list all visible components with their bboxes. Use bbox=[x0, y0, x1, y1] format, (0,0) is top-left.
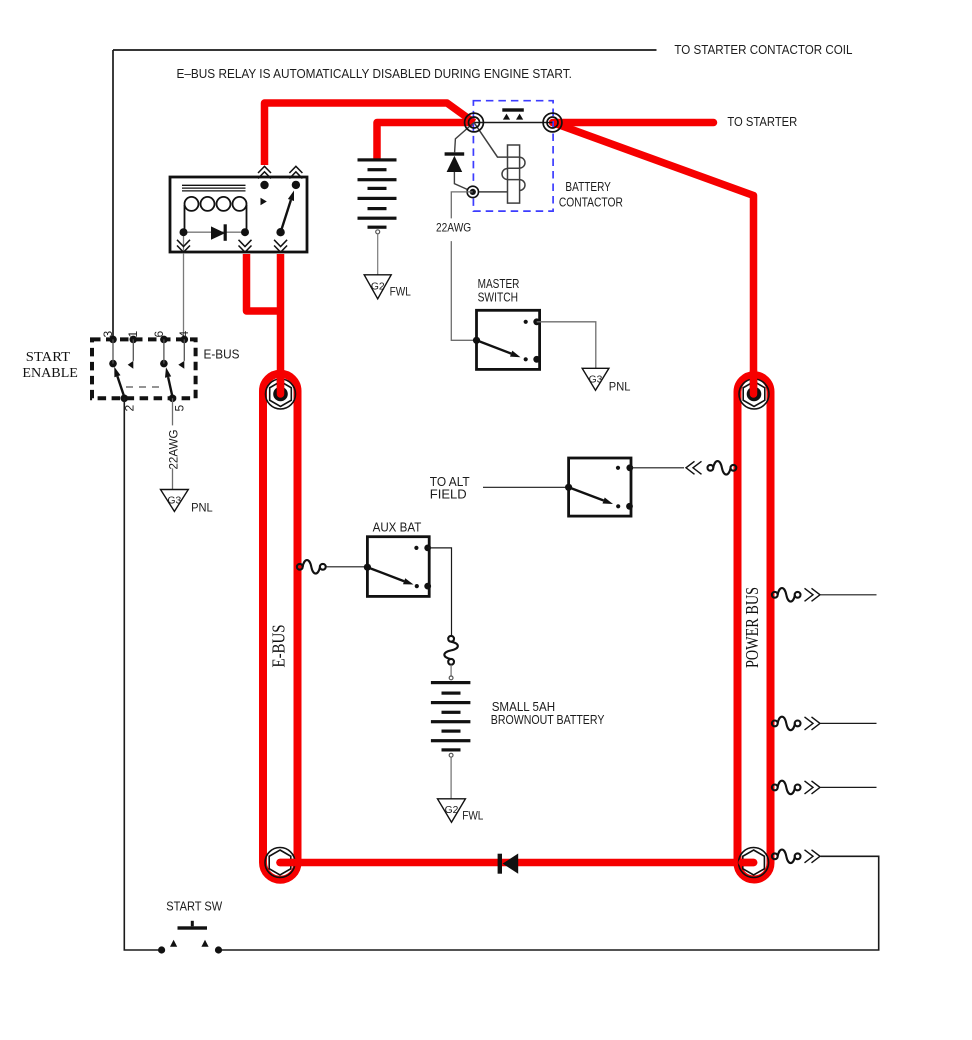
svg-text:G3: G3 bbox=[168, 496, 182, 507]
wire: fuse to aux bat switch bbox=[326, 566, 368, 568]
wire: alt field switch to fuse bbox=[630, 467, 684, 469]
switch S1 contacts bbox=[524, 318, 540, 362]
svg-text:E-BUS: E-BUS bbox=[204, 348, 240, 362]
svg-text:G3: G3 bbox=[589, 374, 603, 385]
battery B1: main battery plates bbox=[358, 158, 397, 229]
wire: thick red bottom tie from e-bus bolt to power bus bolt bbox=[280, 859, 754, 867]
switch S2 pin dots bbox=[109, 336, 188, 403]
svg-text:E-BUS: E-BUS bbox=[269, 625, 289, 668]
svg-text:E–BUS RELAY IS AUTOMATICALLY D: E–BUS RELAY IS AUTOMATICALLY DISABLED DU… bbox=[177, 67, 572, 81]
connector chevrons (left-pointing) on alt field feed bbox=[686, 461, 702, 474]
relay K1 fixed contact triangle bbox=[261, 198, 267, 205]
wire: feeder 3 bbox=[821, 786, 877, 788]
bus: E-BUS red slot outline bbox=[263, 374, 298, 880]
bolt: POWER BUS bottom stud bbox=[739, 848, 769, 878]
svg-text:TO STARTER: TO STARTER bbox=[727, 115, 797, 129]
wire: top signal line to starter contactor coil bbox=[113, 49, 657, 51]
fuse link F2 on power bus (feeder 2) bbox=[772, 717, 801, 731]
switch S3 arm with arrowhead bbox=[569, 487, 604, 500]
switch S3 contacts bbox=[616, 464, 633, 509]
switch S1: master switch box bbox=[477, 310, 540, 369]
bus: POWER BUS red slot outline bbox=[738, 375, 771, 879]
contactor small coil terminal bbox=[467, 186, 478, 197]
fuse link F3 on power bus (feeder 3) bbox=[772, 781, 801, 795]
battery B2: brownout battery plates bbox=[431, 681, 471, 752]
switch S2 pin numbers (rotated) bbox=[101, 331, 191, 412]
wire: red stub into power bus top bolt bbox=[750, 371, 758, 394]
bolt: POWER BUS top stud bbox=[739, 379, 769, 409]
wire: gray from relay coil terminal down to start-enable pin 4 bbox=[183, 232, 185, 339]
relay K1 chevron pins (bottom) bbox=[177, 240, 287, 252]
diode D2: contactor spike diode bbox=[445, 152, 465, 172]
relay K1 coil loops bbox=[185, 197, 247, 232]
ground G2 FWL (firewall) for battery B1 bbox=[364, 275, 411, 299]
ground G2 FWL for brownout battery bbox=[438, 799, 484, 823]
wire: battery B2 to ground G2 bbox=[450, 757, 452, 799]
fuse link F1 on power bus (feeder 1) bbox=[772, 588, 801, 602]
svg-text:22AWG: 22AWG bbox=[436, 220, 471, 234]
wire: thick red from relay contact up and over to battery contactor terminal A bbox=[265, 103, 475, 165]
svg-text:G2: G2 bbox=[371, 282, 385, 293]
wire: thick red diagonal from contactor terminal B down to power bus bbox=[553, 123, 754, 394]
bolt: E-BUS top stud bbox=[266, 379, 296, 409]
relay K1 chevron pins (top) bbox=[258, 166, 302, 178]
wire: contactor coil feed and winding bbox=[474, 123, 525, 204]
contactor contact triangles bbox=[503, 114, 510, 120]
wire: label line to alt field switch bbox=[483, 486, 569, 488]
switch S2: start enable dashed box bbox=[92, 339, 196, 398]
wire: start enable pin 2 down and over to start switch bbox=[124, 398, 161, 950]
switch S2 gang link dashed bbox=[126, 386, 164, 388]
relay K1: e-bus relay box bbox=[170, 177, 307, 252]
wire: 22AWG wire from contactor coil terminal bbox=[451, 192, 476, 340]
connector chevrons feeder 1 bbox=[805, 588, 821, 601]
battery B1 bottom terminal circle bbox=[376, 230, 380, 234]
switch S2 fixed contact triangles bbox=[128, 361, 134, 369]
svg-text:BROWNOUT BATTERY: BROWNOUT BATTERY bbox=[491, 713, 605, 727]
svg-text:ENABLE: ENABLE bbox=[22, 366, 77, 381]
wire: gray interconnect between relay coil terminals bbox=[184, 231, 246, 233]
battery B2 top terminal circle bbox=[449, 676, 453, 680]
wire: thick red TO STARTER feed from contactor terminal B bbox=[553, 119, 714, 127]
switch S4: aux bat switch box bbox=[367, 537, 429, 597]
switch S2 right arm with arrowhead bbox=[168, 377, 172, 397]
wire: aux bat switch to brownout battery fuse bbox=[428, 548, 452, 636]
battery B2 bottom terminal circle bbox=[449, 753, 453, 757]
svg-text:PNL: PNL bbox=[609, 380, 631, 394]
svg-text:PNL: PNL bbox=[191, 501, 213, 515]
fuse link F7 vertical above brownout battery bbox=[444, 636, 458, 665]
wire: red stub into power bus bottom bolt bbox=[742, 859, 754, 867]
contactor terminal B (big double circle) bbox=[543, 113, 562, 132]
contactor terminal A (big double circle) bbox=[465, 113, 484, 132]
svg-text:START: START bbox=[26, 350, 71, 365]
wire: feeder 2 bbox=[821, 722, 877, 724]
connector chevrons feeder 4 bbox=[805, 850, 821, 863]
svg-text:MASTER: MASTER bbox=[478, 277, 520, 291]
fuse link F6 from e-bus to aux bat switch bbox=[297, 560, 326, 574]
svg-text:3: 3 bbox=[101, 331, 115, 338]
wire: thick red relay coil output down-jog to e-bus bbox=[247, 254, 281, 311]
diode D1: relay flyback diode bbox=[211, 224, 227, 241]
pushbutton S5 stem bbox=[191, 921, 194, 927]
ground G3 PNL for start enable bbox=[161, 490, 213, 515]
wire: start enable pin 5 to ground (22AWG) bbox=[172, 398, 174, 489]
ground G3 PNL for master switch bbox=[582, 368, 630, 393]
relay K1 core lines bbox=[182, 185, 246, 191]
switch S4 contacts bbox=[414, 545, 431, 590]
wire: red stub out of e-bus bottom bolt bbox=[280, 859, 300, 867]
wire: battery B1 to ground G2 bbox=[377, 234, 379, 275]
switch S4 common node bbox=[364, 564, 371, 571]
svg-text:5: 5 bbox=[173, 405, 187, 412]
wire: feeder 4 down to start switch line bbox=[219, 856, 879, 950]
svg-text:4: 4 bbox=[177, 331, 191, 338]
svg-text:SWITCH: SWITCH bbox=[478, 290, 518, 304]
svg-text:22AWG: 22AWG bbox=[167, 430, 181, 470]
wire: left vertical from top line down to start-enable pin 3 bbox=[112, 50, 114, 339]
wire: red stub into e-bus top bolt bbox=[277, 371, 285, 394]
wire: fuse to brownout battery bbox=[450, 665, 452, 676]
contactor: battery contactor dashed blue box bbox=[473, 101, 553, 211]
fuse link F4 on power bus (feeder 4 to start circuit) bbox=[772, 850, 801, 864]
svg-text:FWL: FWL bbox=[390, 285, 411, 299]
svg-text:START SW: START SW bbox=[166, 900, 222, 914]
svg-text:FIELD: FIELD bbox=[430, 488, 467, 502]
switch S1 common node bbox=[473, 337, 480, 344]
switch S3 common node bbox=[565, 484, 572, 491]
wire: feeder 1 bbox=[821, 594, 877, 596]
wire: thick red relay switch output down to e-bus bolt bbox=[277, 254, 285, 393]
connector chevrons feeder 3 bbox=[805, 781, 821, 794]
contactor contact bar bbox=[502, 108, 524, 111]
svg-text:FWL: FWL bbox=[462, 809, 483, 823]
wire: contactor terminal-to-terminal thin line bbox=[474, 122, 553, 124]
switch S1 arm with arrowhead bbox=[477, 340, 512, 353]
svg-text:BATTERY: BATTERY bbox=[565, 180, 611, 194]
svg-text:AUX BAT: AUX BAT bbox=[373, 521, 422, 535]
switch S4 arm with arrowhead bbox=[367, 567, 404, 581]
relay K1 node dots bbox=[180, 181, 301, 237]
svg-text:CONTACTOR: CONTACTOR bbox=[559, 196, 623, 210]
svg-text:G2: G2 bbox=[445, 805, 459, 816]
relay K1 switch arm with arrowhead bbox=[281, 200, 291, 232]
wire: thick red battery positive riser to contactor terminal A bbox=[377, 123, 474, 161]
connector chevrons feeder 2 bbox=[805, 717, 821, 730]
svg-text:1: 1 bbox=[126, 331, 140, 338]
switch S2 left arm with arrowhead bbox=[117, 376, 124, 397]
wire: master switch to ground G3 bbox=[537, 322, 596, 369]
diode D3 on bottom tie (cathode left) bbox=[498, 854, 519, 874]
svg-text:SMALL 5AH: SMALL 5AH bbox=[492, 700, 555, 714]
wire: terminal A to diode and diode to small terminal bbox=[454, 123, 474, 192]
svg-text:TO STARTER CONTACTOR COIL: TO STARTER CONTACTOR COIL bbox=[674, 43, 852, 57]
fuse link F5 to power bus (alt field) bbox=[708, 461, 737, 475]
pushbutton S5: start switch bbox=[158, 926, 222, 953]
switch S3: alt field switch box bbox=[569, 458, 631, 516]
switch S2 internal pin stubs bbox=[113, 339, 184, 363]
bolt: E-BUS bottom stud bbox=[265, 848, 295, 878]
svg-text:6: 6 bbox=[152, 331, 166, 338]
svg-text:POWER BUS: POWER BUS bbox=[742, 587, 762, 668]
